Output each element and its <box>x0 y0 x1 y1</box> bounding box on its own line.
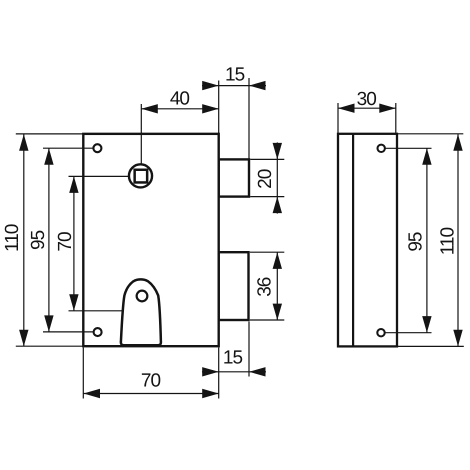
svg-text:110: 110 <box>437 228 458 256</box>
svg-text:30: 30 <box>357 89 377 110</box>
svg-text:110: 110 <box>2 224 23 252</box>
svg-text:36: 36 <box>255 277 276 297</box>
svg-text:95: 95 <box>405 232 426 252</box>
svg-text:95: 95 <box>28 230 49 250</box>
svg-text:15: 15 <box>225 65 245 86</box>
svg-text:40: 40 <box>170 88 190 109</box>
svg-text:70: 70 <box>141 371 161 392</box>
svg-text:20: 20 <box>255 169 276 189</box>
svg-text:15: 15 <box>223 348 243 369</box>
svg-text:70: 70 <box>55 232 76 252</box>
